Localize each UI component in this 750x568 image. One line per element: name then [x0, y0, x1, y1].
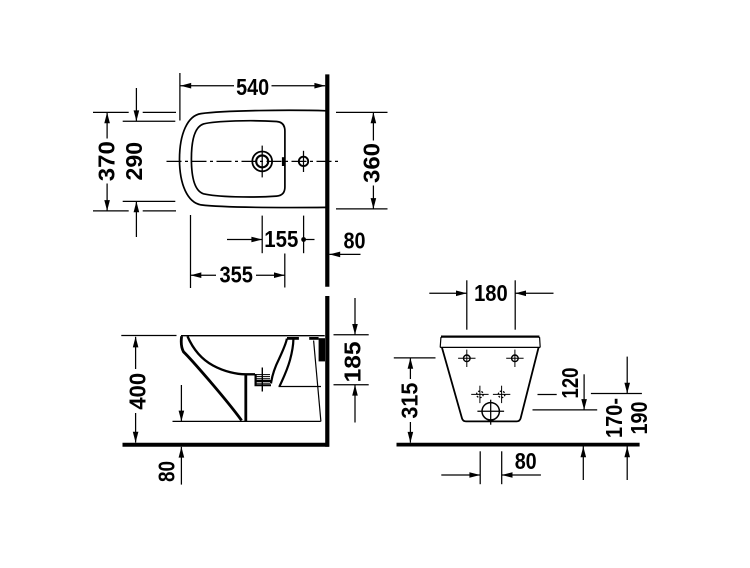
- dim 80 (rear view): [441, 448, 541, 478]
- dim 540 extension line: [179, 73, 181, 121]
- svg-text:400: 400: [125, 373, 151, 410]
- floor line (rear view): [397, 443, 640, 447]
- drain fitting (side view): [255, 368, 272, 392]
- centerline (top view): [167, 160, 342, 162]
- dim 315: [397, 358, 423, 443]
- dim 370: [93, 112, 119, 210]
- dim 80 (top view): [329, 227, 365, 257]
- svg-text:290: 290: [121, 142, 147, 181]
- svg-text:120: 120: [557, 368, 583, 399]
- svg-text:180: 180: [474, 280, 508, 306]
- dim 360: [359, 112, 385, 208]
- dim 185: [339, 298, 365, 423]
- middle fixing hole right: [493, 386, 510, 403]
- svg-text:80: 80: [515, 448, 537, 474]
- dim 355: [191, 262, 285, 288]
- dim 170-190: [601, 357, 652, 480]
- dim 290: [121, 88, 147, 237]
- dim 180: [429, 280, 553, 306]
- floor line (side view): [123, 443, 329, 447]
- dim 180 extension lines: [467, 280, 515, 329]
- dim 155: [227, 226, 315, 252]
- wall mount section (side view): [319, 338, 325, 361]
- dim 80 (side view): [154, 385, 185, 485]
- inner basin curve (side view): [188, 336, 256, 374]
- wall line (top view): [325, 74, 329, 286]
- dim 355 extension lines: [191, 215, 285, 288]
- overflow mark: [282, 157, 285, 166]
- svg-text:315: 315: [397, 383, 423, 419]
- inner basin outline (top view): [191, 121, 285, 197]
- svg-text:190: 190: [626, 402, 652, 435]
- water pipe line (side view): [279, 386, 322, 388]
- upper mounting hole left: [458, 350, 475, 367]
- svg-text:540: 540: [236, 74, 269, 100]
- dim 360 extension lines: [336, 112, 388, 208]
- svg-text:80: 80: [154, 461, 180, 482]
- svg-text:360: 360: [359, 143, 385, 183]
- deck section band (side view): [287, 337, 319, 340]
- svg-text:355: 355: [219, 262, 253, 288]
- bidet body outline (top view): [180, 110, 328, 207]
- dim 400: [125, 337, 151, 443]
- faucet hole (top view): [252, 146, 272, 178]
- wall line (side view): [325, 296, 329, 447]
- svg-text:80: 80: [344, 227, 366, 253]
- dim 80 left extension: [173, 420, 241, 422]
- small hole (top view): [299, 151, 308, 172]
- svg-text:185: 185: [339, 341, 365, 382]
- body trapezoid (rear view): [442, 347, 539, 421]
- dim 155 extension lines: [262, 216, 303, 254]
- underside line (side view): [240, 420, 321, 422]
- dim 290 extension lines: [123, 121, 176, 201]
- back surface line (side view): [314, 341, 321, 422]
- front profile (side view): [181, 336, 241, 420]
- pedestal front edge (side view): [244, 375, 247, 421]
- dim 80 rear extension lines: [480, 451, 502, 484]
- dim 170-190 extension line: [591, 393, 642, 395]
- dim 185 extension lines: [334, 335, 369, 385]
- dim 540: [180, 74, 325, 100]
- svg-text:155: 155: [264, 226, 298, 252]
- drain hole (rear view): [477, 400, 504, 425]
- middle fixing hole left: [471, 386, 488, 403]
- svg-text:370: 370: [93, 141, 119, 181]
- basin back outer curve (side view): [280, 339, 294, 386]
- dim 370 extension lines: [93, 112, 176, 210]
- dim 120 extension lines: [533, 395, 598, 410]
- rim top line (side view): [181, 335, 325, 337]
- dim 400 extension line: [121, 335, 176, 337]
- upper mounting hole right: [506, 350, 523, 367]
- dim 315 extension line: [394, 357, 436, 359]
- dim 120: [557, 368, 587, 481]
- rim band (rear view): [440, 337, 540, 348]
- svg-text:170-: 170-: [601, 398, 627, 438]
- basin back inner curve (side view): [271, 339, 287, 384]
